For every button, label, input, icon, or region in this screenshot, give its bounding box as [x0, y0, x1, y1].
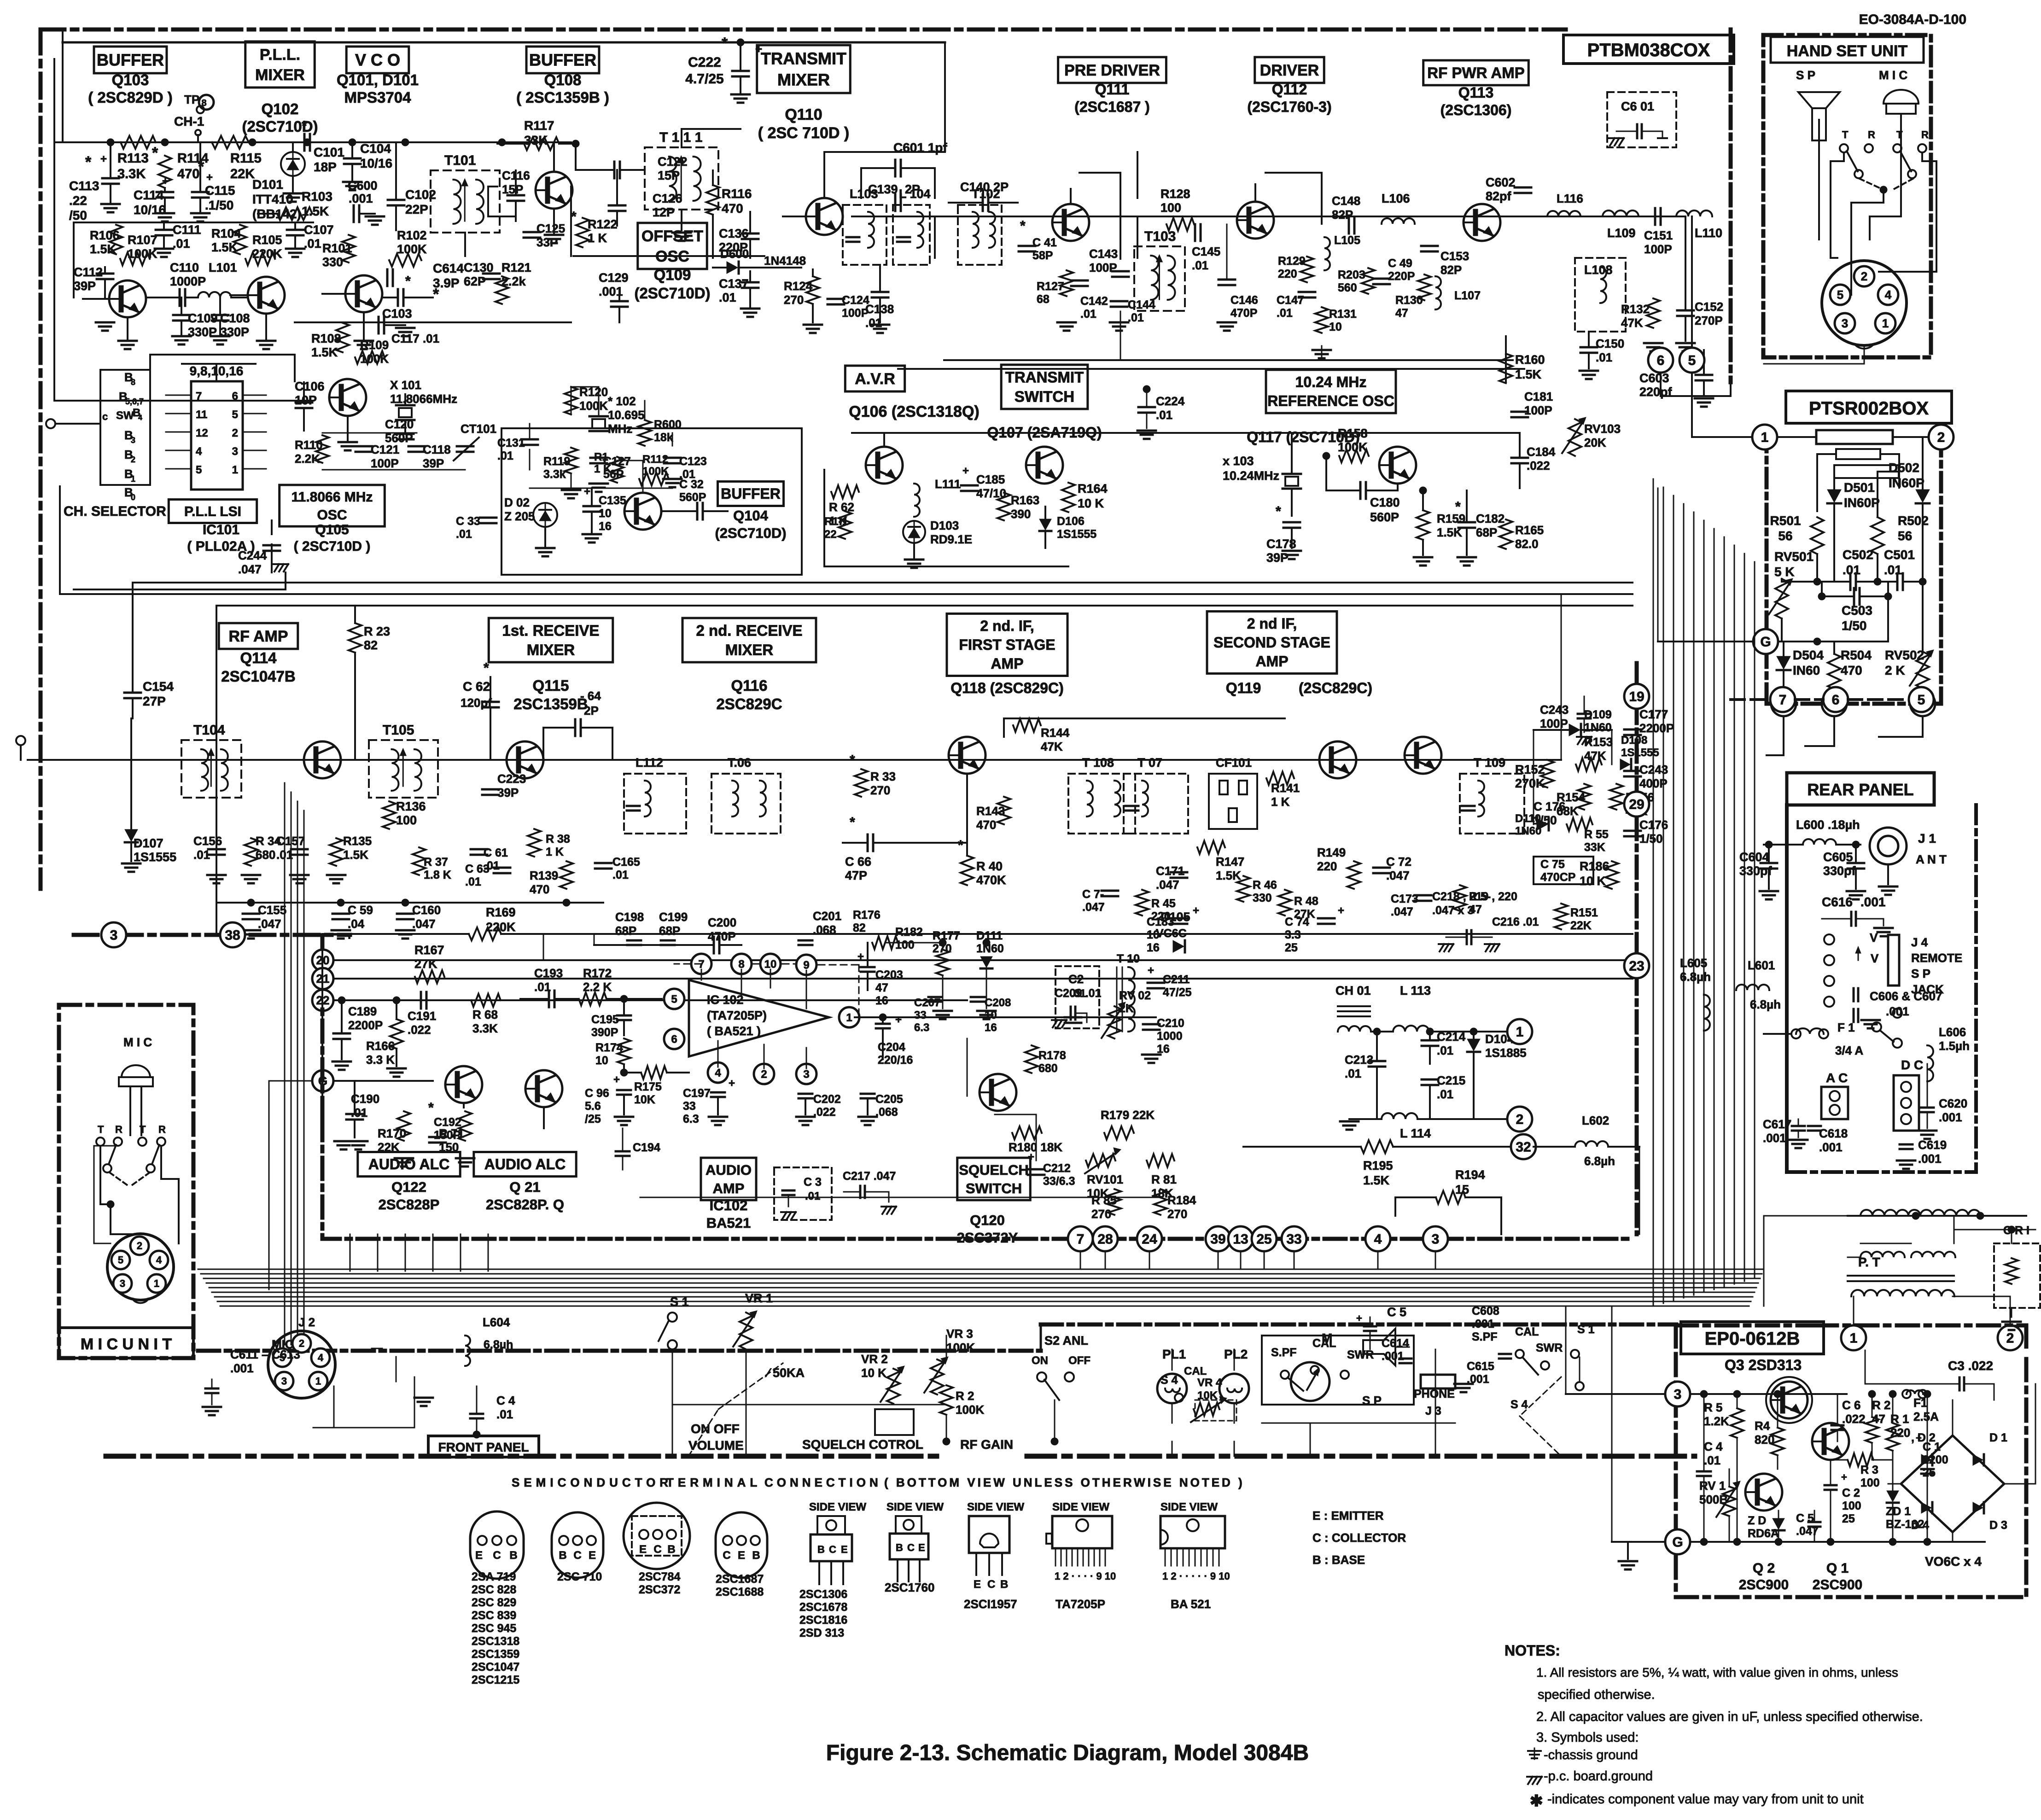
svg-text:5: 5: [1837, 288, 1843, 302]
svg-text:( BOTTOM VIEW UNLESS OTH: ( BOTTOM VIEW UNLESS OTHERWISE NOTED ): [884, 1476, 1245, 1489]
svg-text:Q114: Q114: [240, 649, 277, 666]
resistor R175 10K: [641, 1066, 667, 1079]
svg-text:23: 23: [1629, 959, 1644, 974]
svg-text:C103: C103: [382, 307, 412, 321]
capacitor C224 .01: [1138, 406, 1155, 408]
svg-text:M I C: M I C: [123, 1035, 152, 1049]
capacitor C131 .01: [521, 438, 538, 441]
svg-text:2200P: 2200P: [1639, 721, 1674, 735]
svg-text:150P: 150P: [434, 1129, 461, 1142]
transformer T102 tank: [958, 205, 1002, 265]
svg-text:6.3: 6.3: [914, 1021, 929, 1034]
svg-text:6: 6: [671, 1033, 677, 1045]
svg-text:220K: 220K: [252, 247, 282, 261]
svg-text:2SC828P. Q: 2SC828P. Q: [486, 1196, 564, 1213]
svg-text:2SC900: 2SC900: [1739, 1577, 1789, 1592]
wire harness risers from node row: [1080, 1251, 1081, 1269]
svg-text:C130: C130: [464, 261, 494, 274]
wire ptbm edge link: [1661, 373, 1731, 396]
resistor R2 100K: [940, 1385, 953, 1415]
svg-text:R4: R4: [1755, 1419, 1770, 1433]
diode D110 1N60: [1537, 818, 1548, 830]
svg-text:C146: C146: [1230, 294, 1258, 307]
svg-text:+: +: [1028, 1151, 1034, 1163]
svg-text:C148: C148: [1332, 194, 1360, 208]
svg-text:specified otherwise.: specified otherwise.: [1538, 1687, 1655, 1702]
wire left riser to bus: [62, 42, 64, 142]
svg-text:.01: .01: [1596, 350, 1612, 364]
resistor R130 47: [1418, 274, 1431, 300]
block MIC UNIT border: [59, 1005, 193, 1358]
svg-text:47P: 47P: [845, 869, 867, 882]
block label P.L.L. MIXER Q102: [245, 41, 315, 87]
svg-text:C197: C197: [683, 1087, 711, 1100]
resistor R123 82: [349, 623, 362, 653]
svg-text:C614: C614: [433, 261, 464, 275]
svg-text:L101: L101: [209, 261, 237, 274]
svg-text:FIRST STAGE: FIRST STAGE: [959, 636, 1055, 653]
svg-text:100P: 100P: [1540, 717, 1568, 730]
capacitor C121 100P: [356, 445, 372, 448]
svg-text:5.6: 5.6: [585, 1100, 601, 1113]
svg-text:PL1: PL1: [1162, 1347, 1186, 1361]
block label AUDIO AMP IC102: [701, 1158, 756, 1200]
diode D502 1N60P: [1916, 490, 1930, 502]
svg-text:S.PF: S.PF: [1271, 1346, 1297, 1359]
svg-text:C117 .01: C117 .01: [391, 332, 439, 345]
inductor L101: [198, 292, 231, 297]
svg-text:R143: R143: [976, 804, 1005, 818]
svg-text:6.8µh: 6.8µh: [1680, 970, 1711, 984]
svg-text:C 4: C 4: [1704, 1440, 1723, 1453]
svg-text:C150: C150: [1596, 337, 1624, 350]
node 23 right edge: [1624, 953, 1649, 978]
svg-text:1N60: 1N60: [976, 942, 1004, 955]
wire rear top dashes: [1731, 698, 1770, 701]
svg-text:Q116: Q116: [731, 677, 768, 694]
svg-text:-p.c. board.ground: -p.c. board.ground: [1544, 1769, 1653, 1784]
capacitor C503 1/50: [1853, 588, 1855, 605]
capacitor C118 39P: [408, 445, 425, 448]
svg-text:33: 33: [914, 1009, 927, 1021]
capacitor C207 33/6.3: [928, 996, 942, 998]
svg-text:3/4 A: 3/4 A: [1835, 1044, 1863, 1057]
svg-text:3.3K: 3.3K: [472, 1021, 498, 1035]
svg-text:.001: .001: [1918, 1152, 1942, 1166]
svg-text:L605: L605: [1680, 956, 1707, 970]
svg-text:470CP: 470CP: [1540, 871, 1575, 884]
svg-text:Q105: Q105: [315, 522, 349, 537]
connector mic unit 5-pin: [107, 1234, 174, 1300]
resistor R502 56: [1871, 517, 1884, 554]
svg-text:T103: T103: [1144, 229, 1176, 244]
svg-text:1.5K: 1.5K: [311, 345, 338, 359]
speaker SP front: [1363, 1329, 1395, 1365]
resistor R154 68K: [1578, 784, 1591, 810]
svg-text:C : COLLECTOR: C : COLLECTOR: [1312, 1531, 1406, 1545]
svg-text:1: 1: [131, 474, 135, 484]
svg-text:R122: R122: [588, 217, 618, 231]
resistor R186 10K: [1605, 861, 1618, 889]
svg-text:2SC372Y: 2SC372Y: [957, 1230, 1018, 1246]
diode D106 1S1555: [1039, 519, 1051, 530]
svg-text:J 4: J 4: [1911, 935, 1928, 949]
svg-text:SIDE VIEW: SIDE VIEW: [1160, 1501, 1218, 1513]
package TO92 type3: [716, 1512, 767, 1578]
svg-text:C 49: C 49: [1388, 257, 1412, 270]
transistor Q117 ref osc: [1379, 447, 1416, 484]
capacitor C194 .01: [616, 1150, 630, 1153]
node 33 edge: [1282, 1226, 1306, 1251]
svg-text:3. Symbols used:: 3. Symbols used:: [1536, 1730, 1639, 1745]
capacitor C197 33/6.3: [711, 1091, 725, 1094]
svg-text:.068: .068: [875, 1106, 898, 1119]
diode D103 RD9.1E: [903, 521, 925, 543]
wire vco supply rail: [570, 187, 572, 256]
svg-text:C222: C222: [688, 55, 721, 70]
svg-text:C136: C136: [719, 227, 749, 240]
capacitor C180 560P: [1359, 482, 1362, 499]
svg-text:C218 , 219 , 220: C218 , 219 , 220: [1432, 890, 1517, 903]
svg-text:+: +: [100, 153, 107, 165]
svg-text:3: 3: [110, 928, 118, 943]
svg-text:33K: 33K: [524, 133, 548, 147]
inductor L112 tank: [624, 774, 686, 834]
node 10 opamp pin: [760, 954, 781, 974]
svg-text:*: *: [722, 35, 728, 52]
svg-text:C202: C202: [813, 1093, 841, 1106]
svg-text:+: +: [895, 1014, 902, 1026]
svg-text:C: C: [723, 1549, 730, 1562]
capacitor C214 .01: [1422, 1039, 1438, 1042]
svg-text:2SC 829: 2SC 829: [472, 1596, 516, 1609]
svg-text:R131: R131: [1329, 308, 1357, 321]
node 29 right edge: [1624, 792, 1649, 817]
transistor Q115 1st mixer: [507, 741, 543, 778]
resistor R104 1.5K: [233, 225, 246, 254]
svg-text:S 4: S 4: [1510, 1398, 1528, 1411]
capacitor C126 12P: [609, 204, 625, 207]
svg-text:22K: 22K: [230, 167, 255, 181]
svg-text:.022: .022: [408, 1023, 431, 1037]
svg-text:33/6.3: 33/6.3: [1043, 1175, 1075, 1188]
svg-text:R 2: R 2: [956, 1389, 974, 1403]
svg-text:R: R: [1868, 129, 1875, 140]
svg-text:C191: C191: [408, 1009, 436, 1023]
svg-text:.001: .001: [1939, 1110, 1962, 1124]
svg-text:.1/50: .1/50: [205, 198, 233, 212]
svg-text:2SC900: 2SC900: [1813, 1577, 1862, 1592]
svg-text:R147: R147: [1216, 855, 1244, 869]
svg-text:1.2K: 1.2K: [1704, 1414, 1729, 1428]
svg-text:16: 16: [875, 994, 888, 1007]
resistor R136 100: [383, 801, 396, 829]
svg-text:SIDE VIEW: SIDE VIEW: [1052, 1501, 1109, 1513]
potentiometer RV102 2K: [1108, 1006, 1121, 1038]
capacitor C199 68P: [661, 939, 675, 942]
svg-text:56P: 56P: [603, 468, 624, 481]
svg-text:C: C: [907, 1542, 915, 1553]
svg-text:100P: 100P: [371, 456, 399, 470]
svg-text:13: 13: [1233, 1232, 1248, 1247]
node 8 opamp pin: [731, 954, 752, 974]
svg-text:R139: R139: [530, 869, 558, 882]
svg-text:.001: .001: [349, 192, 373, 205]
block label 1st RECEIVE MIXER Q115: [489, 618, 613, 662]
svg-text:2SCI1957: 2SCI1957: [964, 1597, 1017, 1611]
svg-text:68P: 68P: [615, 924, 636, 938]
resistor R159 1.5K: [1417, 510, 1429, 540]
svg-text:1.8 K: 1.8 K: [424, 869, 451, 881]
svg-text:ZD 1: ZD 1: [1886, 1505, 1911, 1518]
block label BUFFER Q104: [717, 482, 783, 506]
transformer T111: [645, 147, 718, 210]
svg-text:C115: C115: [205, 183, 235, 198]
node 21 junction: [312, 968, 333, 989]
wire buffer Q108 output: [488, 186, 497, 187]
svg-text:EP0-0612B: EP0-0612B: [1705, 1329, 1800, 1349]
svg-text:C181: C181: [1524, 390, 1553, 403]
svg-text:390: 390: [1011, 507, 1031, 521]
svg-text:PRE DRIVER: PRE DRIVER: [1064, 62, 1160, 79]
svg-text:RV502: RV502: [1885, 648, 1924, 662]
svg-text:C151: C151: [1644, 228, 1673, 242]
svg-text:6.3: 6.3: [683, 1113, 699, 1126]
inductor L103 tank: [843, 205, 886, 265]
svg-text:Q104: Q104: [733, 507, 769, 524]
svg-text:470K: 470K: [976, 873, 1006, 887]
resistor R170 22K: [397, 1111, 410, 1141]
capacitor C156 .01: [208, 848, 225, 851]
resistor R138 1K: [528, 829, 541, 857]
svg-text:BUFFER: BUFFER: [721, 485, 781, 502]
ic IC102 audio amp opamp: [689, 980, 829, 1056]
svg-text:E: E: [639, 1543, 647, 1556]
diode D108 1S1555: [1620, 759, 1630, 770]
svg-text:C615: C615: [1467, 1360, 1494, 1373]
svg-text:2SC1688: 2SC1688: [716, 1586, 764, 1598]
svg-text:1.5µh: 1.5µh: [1939, 1039, 1970, 1053]
svg-text:2: 2: [131, 455, 135, 464]
svg-text:270: 270: [1167, 1207, 1187, 1221]
svg-text:RD9.1E: RD9.1E: [930, 532, 972, 546]
crystal X102 10.695MHz: [589, 415, 608, 418]
wire harness left risers: [350, 1234, 351, 1271]
svg-text:C126: C126: [653, 192, 682, 205]
svg-text:C144: C144: [1128, 298, 1155, 311]
svg-text:82: 82: [853, 922, 866, 934]
capacitor C116 15P: [507, 194, 524, 197]
svg-text:REAR PANEL: REAR PANEL: [1807, 780, 1913, 799]
svg-text:2: 2: [2006, 1331, 2014, 1346]
svg-text:C 4: C 4: [496, 1394, 515, 1407]
svg-text:25: 25: [1285, 941, 1298, 954]
transistor Q106 AVR: [866, 447, 903, 484]
svg-text:.01: .01: [719, 291, 736, 304]
capacitor C149 220P: [1373, 278, 1390, 280]
svg-text:2SC828P: 2SC828P: [379, 1196, 440, 1213]
svg-text:2: 2: [1937, 430, 1945, 445]
svg-text:39: 39: [1210, 1232, 1225, 1247]
svg-text:C 41: C 41: [1032, 236, 1057, 249]
svg-text:.047: .047: [1082, 901, 1105, 914]
svg-text:.01: .01: [497, 449, 513, 462]
resistor R167 27K: [415, 970, 444, 983]
svg-text:C157: C157: [276, 834, 305, 848]
svg-text:C600: C600: [348, 179, 378, 192]
svg-text:1. All resistors are 5%, ¼ wat: 1. All resistors are 5%, ¼ watt, with va…: [1536, 1665, 1898, 1680]
wire lower receive ground bus: [216, 902, 603, 904]
svg-text:100P: 100P: [1644, 242, 1672, 256]
svg-text:MIXER: MIXER: [725, 642, 774, 659]
resistor bar R506 line: [1836, 449, 1880, 459]
svg-text:3: 3: [131, 436, 135, 445]
diode D600 1N4148: [727, 262, 738, 274]
svg-text:5: 5: [671, 993, 677, 1005]
wire PT primary feed: [1764, 1216, 1848, 1306]
svg-text:C142: C142: [1080, 295, 1108, 308]
svg-text:A N T: A N T: [1916, 852, 1947, 866]
resistor R140 470K: [961, 856, 974, 885]
svg-text:8: 8: [131, 378, 135, 387]
svg-text:2P: 2P: [584, 704, 599, 717]
svg-text:C121: C121: [371, 443, 399, 456]
block label EPO-0612B: [1681, 1322, 1824, 1354]
node 22 junction: [312, 990, 333, 1011]
transistor Q2 power: [1745, 1474, 1782, 1511]
svg-text:560P: 560P: [679, 491, 706, 504]
wire audio G riser: [321, 942, 323, 1119]
capacitor C110 1000P: [179, 289, 181, 306]
svg-text:Q109: Q109: [654, 266, 691, 283]
ic IC101 PLL LSI: [191, 381, 243, 490]
svg-text:C619: C619: [1918, 1138, 1947, 1152]
svg-text:C143: C143: [1089, 247, 1118, 261]
capacitor C148 82P: [1348, 217, 1350, 233]
node 4 opamp pin: [708, 1062, 728, 1083]
svg-text:CAL: CAL: [1515, 1325, 1539, 1338]
svg-text:3: 3: [803, 1068, 809, 1080]
svg-text:IC101: IC101: [203, 522, 239, 537]
capacitor C161 .01: [471, 848, 487, 851]
node 24 edge: [1137, 1226, 1162, 1251]
svg-text:D103: D103: [930, 519, 959, 532]
svg-text:28: 28: [1097, 1232, 1113, 1247]
svg-text:C215: C215: [1437, 1073, 1465, 1087]
svg-text:MIXER: MIXER: [777, 70, 830, 89]
resistor R101 330: [342, 235, 355, 262]
resistor R158 100K: [1339, 449, 1369, 462]
node 13 edge: [1228, 1226, 1253, 1251]
capacitor C200 470P: [713, 937, 715, 953]
svg-text:2: 2: [232, 427, 238, 439]
wire main board right dash-dot border: [1729, 29, 1733, 382]
svg-text:L105: L105: [1334, 234, 1360, 247]
resistor R172 2.2K: [579, 992, 606, 1005]
svg-text:C112: C112: [74, 265, 103, 279]
svg-text:R 37: R 37: [424, 856, 448, 869]
svg-text:C108: C108: [220, 311, 250, 325]
wire audio output bus: [855, 1016, 1156, 1018]
svg-text:7: 7: [1077, 1232, 1085, 1247]
trimmer CT101: [457, 445, 473, 448]
svg-text:B: B: [817, 1544, 825, 1555]
svg-text:C106: C106: [295, 379, 325, 393]
svg-text:V C O: V C O: [355, 51, 400, 70]
capacitor C144 .01: [1111, 300, 1127, 303]
svg-text:T 108: T 108: [1082, 756, 1114, 770]
capacitor C204 220/16: [876, 1023, 890, 1025]
svg-text:.01: .01: [1128, 311, 1144, 324]
svg-text:2SC1359: 2SC1359: [472, 1648, 519, 1661]
wire transmit mixer supply riser: [1137, 152, 1138, 198]
svg-text:C 61: C 61: [484, 846, 508, 859]
wire meter and switch rail: [1262, 1423, 1455, 1424]
capacitor C120 560P: [397, 433, 414, 435]
svg-text:C 74: C 74: [1285, 916, 1309, 928]
svg-text:.01: .01: [1843, 563, 1860, 577]
svg-text:+: +: [962, 465, 969, 477]
svg-text:Q 2: Q 2: [1753, 1561, 1775, 1576]
svg-text:2.2 K: 2.2 K: [583, 980, 612, 994]
svg-text:3.3 K: 3.3 K: [366, 1053, 395, 1067]
svg-text:56: 56: [1898, 529, 1912, 543]
resistor R110 2.2K: [316, 435, 329, 463]
svg-text:1.5K: 1.5K: [90, 242, 117, 256]
svg-text:2: 2: [137, 1240, 142, 1252]
svg-text:C194: C194: [633, 1141, 660, 1154]
inductor L116: [1547, 211, 1580, 216]
wire driver collector loop: [1265, 173, 1322, 224]
svg-text:+: +: [584, 485, 590, 498]
svg-text:R132: R132: [1621, 302, 1650, 316]
svg-text:R 23: R 23: [364, 624, 390, 638]
svg-text:SQUELCH COTROL: SQUELCH COTROL: [802, 1437, 923, 1452]
svg-text:SQUELCH: SQUELCH: [959, 1162, 1029, 1178]
svg-text:OFFSET: OFFSET: [641, 227, 703, 245]
svg-text:C203: C203: [875, 968, 903, 981]
svg-text:82.0: 82.0: [1515, 537, 1539, 551]
node 6 opamp pin: [664, 1029, 684, 1049]
svg-text:R501: R501: [1770, 513, 1801, 528]
svg-text:2SC 710: 2SC 710: [557, 1570, 602, 1583]
capacitor C215 .01: [1422, 1079, 1438, 1081]
block label RF PWR AMP Q113: [1423, 60, 1529, 85]
svg-text:BUFFER: BUFFER: [97, 51, 164, 70]
svg-text:R127: R127: [1037, 280, 1064, 293]
resistor R182 100: [872, 936, 898, 949]
svg-text:100: 100: [1842, 1499, 1861, 1512]
node 7 edge: [1068, 1226, 1093, 1251]
fuse F1 3/4A: [1791, 1029, 1801, 1038]
svg-text:5: 5: [118, 1254, 123, 1266]
capacitor C174 3.3/25: [1318, 917, 1335, 920]
resistor R501 56: [1811, 517, 1824, 554]
svg-text:R107: R107: [128, 233, 157, 247]
board name PTSR002BOX: [1786, 391, 1952, 423]
svg-text:D C: D C: [1901, 1058, 1923, 1072]
svg-text:330P: 330P: [220, 325, 249, 339]
svg-text:C110: C110: [170, 261, 199, 274]
resistor R133 270: [855, 769, 868, 797]
svg-text:3: 3: [1842, 316, 1848, 330]
svg-text:L112: L112: [636, 756, 663, 770]
svg-text:C 3: C 3: [804, 1176, 822, 1189]
svg-text:C501: C501: [1884, 548, 1915, 562]
svg-text:10.24MHz: 10.24MHz: [1223, 469, 1279, 483]
node 3 opamp pin: [796, 1064, 816, 1084]
svg-text:.001: .001: [1819, 1140, 1843, 1154]
